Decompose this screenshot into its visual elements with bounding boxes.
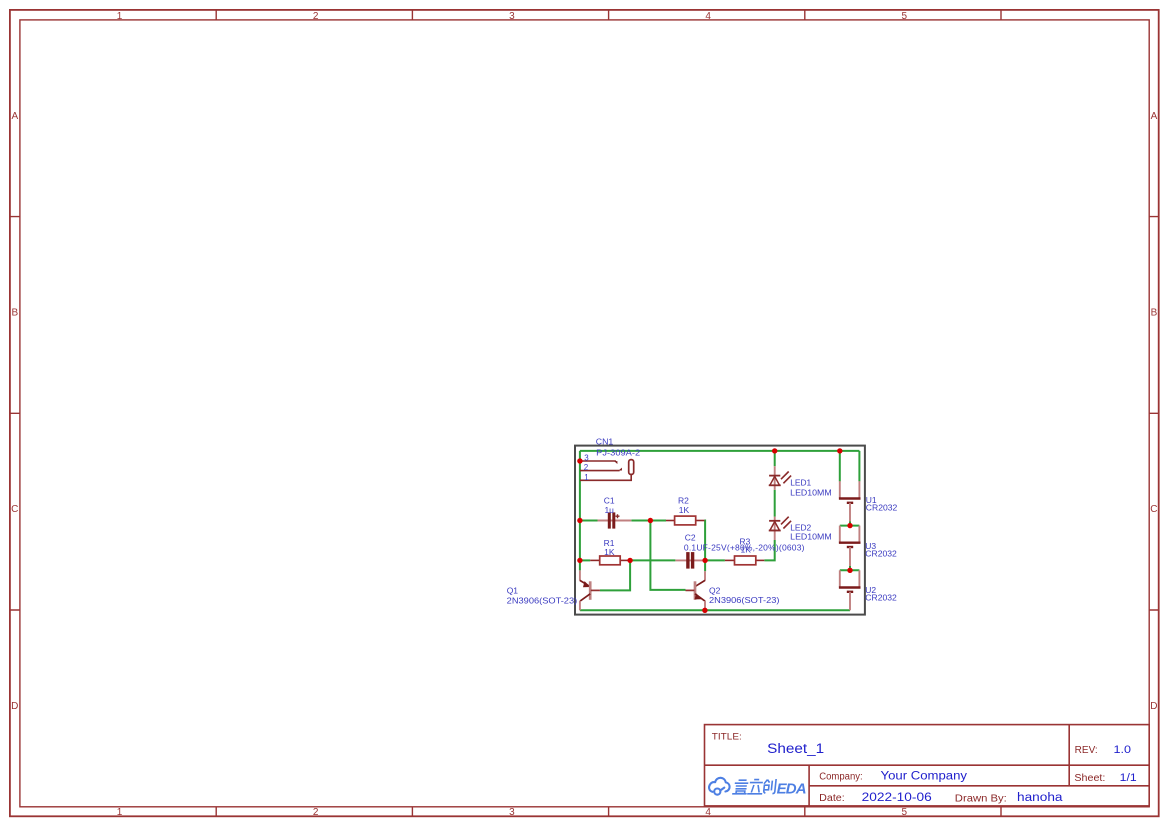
wire LED2 to R3 <box>764 540 774 560</box>
junction dot U2 top <box>847 568 852 573</box>
svg-text:C: C <box>11 504 18 515</box>
wire U1 to U3 link <box>849 522 851 526</box>
svg-text:5: 5 <box>902 807 908 818</box>
svg-text:2: 2 <box>584 463 589 472</box>
wire C1 right to R2 <box>631 520 666 522</box>
svg-text:C2: C2 <box>685 532 696 542</box>
battery U2 CR2032 <box>839 570 861 610</box>
junction dot C1 left <box>577 518 582 523</box>
svg-text:LED1: LED1 <box>790 478 811 488</box>
junction dot CN1 pin3 <box>577 458 582 463</box>
svg-text:4: 4 <box>705 11 711 22</box>
svg-text:A: A <box>11 111 18 122</box>
wire bottom rail <box>580 609 850 611</box>
transistor Q2 2N3906 PNP <box>686 571 706 610</box>
capacitor C1 polarized <box>598 512 632 528</box>
svg-text:LED10MM: LED10MM <box>790 487 832 497</box>
svg-text:Q2: Q2 <box>709 586 721 596</box>
svg-text:1: 1 <box>117 11 123 22</box>
junction dot node A <box>648 518 653 523</box>
svg-text:Your Company: Your Company <box>881 770 968 782</box>
wire R1 right to C2 <box>630 559 675 561</box>
svg-text:Date:: Date: <box>819 793 845 804</box>
battery U1 CR2032 <box>839 481 861 521</box>
wire R3 left to node <box>705 559 725 561</box>
svg-text:R2: R2 <box>678 496 689 506</box>
svg-text:EDA: EDA <box>777 781 807 798</box>
wire U3 top bar <box>840 525 860 527</box>
resistor R2 <box>666 516 704 525</box>
svg-text:hanoha: hanoha <box>1017 792 1063 804</box>
svg-text:1/1: 1/1 <box>1120 772 1137 784</box>
schematic sheet box <box>575 446 865 615</box>
svg-text:CR2032: CR2032 <box>865 592 897 602</box>
battery U3 CR2032 <box>839 526 861 566</box>
wire LED1-LED2 link <box>774 490 776 517</box>
LED1 <box>769 466 791 490</box>
transistor Q1 2N3906 PNP <box>580 570 600 610</box>
svg-text:1.0: 1.0 <box>1114 744 1132 756</box>
wire U2 top bar <box>840 569 860 571</box>
svg-text:Company:: Company: <box>819 771 863 782</box>
capacitor C2 <box>675 552 702 569</box>
svg-text:3: 3 <box>509 11 515 22</box>
svg-text:B: B <box>11 308 18 319</box>
row ticks right <box>1149 217 1159 610</box>
svg-text:C1: C1 <box>604 495 615 505</box>
wire node B to Q1 base <box>600 560 630 590</box>
wire R1 left stub <box>580 559 590 561</box>
svg-text:CR2032: CR2032 <box>866 502 898 512</box>
wire node A to Q2 base <box>650 521 685 590</box>
wire U3 to U2 link <box>849 566 851 570</box>
title block outline <box>705 725 1150 806</box>
junction dot C2 right <box>702 558 707 563</box>
wire left rail vertical <box>579 451 581 571</box>
svg-text:CN1: CN1 <box>596 437 614 447</box>
svg-text:2: 2 <box>313 807 319 818</box>
logo text jialichuang CJK strokes <box>732 779 776 794</box>
junction dot Q2 emitter rail <box>702 608 707 613</box>
svg-text:Q1: Q1 <box>507 586 519 596</box>
column ticks top <box>216 10 1001 20</box>
junction dot U1 top <box>837 448 842 453</box>
logo JLC EDA cloud icon <box>709 778 730 795</box>
resistor R3 <box>725 556 764 565</box>
junction dot node B <box>627 558 632 563</box>
svg-text:2: 2 <box>313 11 319 22</box>
svg-text:C: C <box>1150 504 1157 515</box>
svg-text:LED10MM: LED10MM <box>790 532 832 542</box>
svg-text:CR2032: CR2032 <box>865 549 897 559</box>
svg-text:Sheet_1: Sheet_1 <box>767 741 824 756</box>
column ticks bottom <box>216 807 1001 816</box>
svg-text:Sheet:: Sheet: <box>1074 773 1105 784</box>
svg-text:5: 5 <box>902 11 908 22</box>
column labels bottom 1-5 <box>117 807 908 818</box>
LED2 <box>769 517 791 540</box>
row labels left A-D <box>11 111 18 712</box>
svg-text:D: D <box>11 701 18 712</box>
svg-text:1K: 1K <box>740 545 751 555</box>
svg-text:1: 1 <box>117 807 123 818</box>
svg-text:TITLE:: TITLE: <box>712 731 742 742</box>
connector CN1 PJ-309A-2 <box>580 460 634 481</box>
svg-text:1K: 1K <box>604 547 615 557</box>
wire R2 right drop <box>703 521 706 572</box>
svg-text:A: A <box>1151 111 1158 122</box>
column labels top 1-5 <box>117 11 908 22</box>
svg-text:REV:: REV: <box>1075 745 1098 756</box>
svg-text:PJ-309A-2: PJ-309A-2 <box>596 447 640 457</box>
svg-text:3: 3 <box>509 807 515 818</box>
svg-text:D: D <box>1150 701 1157 712</box>
junction dot LED1 top <box>772 448 777 453</box>
svg-text:2N3906(SOT-23): 2N3906(SOT-23) <box>709 595 780 605</box>
svg-text:Drawn By:: Drawn By: <box>955 793 1007 804</box>
junction dot R1 left <box>577 558 582 563</box>
svg-text:2022-10-06: 2022-10-06 <box>862 792 932 804</box>
svg-text:1: 1 <box>584 473 589 482</box>
svg-text:B: B <box>1151 308 1158 319</box>
svg-text:1u: 1u <box>604 505 614 515</box>
wire U1 left drop <box>839 451 841 482</box>
wire U1 right drop <box>858 451 860 482</box>
resistor R1 <box>590 556 630 565</box>
svg-text:4: 4 <box>705 807 711 818</box>
svg-text:1K: 1K <box>679 505 690 515</box>
svg-text:3: 3 <box>584 453 589 462</box>
row ticks left <box>10 217 20 610</box>
wire C1 left <box>580 520 598 522</box>
svg-text:2N3906(SOT-23): 2N3906(SOT-23) <box>507 596 578 606</box>
junction dot U3 top <box>847 523 852 528</box>
row labels right A-D <box>1150 111 1157 712</box>
wire LED1 top drop <box>774 451 776 466</box>
wire top rail VCC <box>580 450 860 452</box>
